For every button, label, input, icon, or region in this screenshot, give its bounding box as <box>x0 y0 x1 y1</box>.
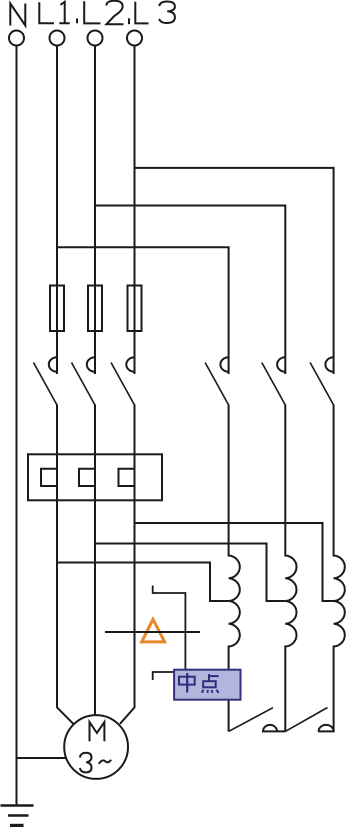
contactor KM pole 2 <box>262 357 286 405</box>
terminal N <box>9 31 24 46</box>
label L3 <box>129 2 175 25</box>
motor label 3~ <box>80 753 111 773</box>
wire N to motor <box>17 757 67 759</box>
callout leader <box>153 586 186 671</box>
contactor KM pole 1 <box>205 357 229 405</box>
breaker QF pole 2 <box>72 357 96 405</box>
wire N vertical <box>16 46 18 806</box>
wire L1 branch to contactor pole 1 <box>57 247 229 374</box>
FR heater element 1 <box>41 469 57 486</box>
breaker QF pole 1 <box>34 357 58 405</box>
net label box 中点 <box>174 670 240 700</box>
terminal L2 <box>88 31 103 46</box>
terminal L3 <box>127 31 142 46</box>
contactor KM pole 3 <box>310 357 334 405</box>
autotransformer winding T1 <box>229 405 240 732</box>
probe crosshair line <box>105 631 200 633</box>
fuse FU3 <box>128 286 142 332</box>
breaker QF pole 3 <box>111 357 135 405</box>
motor letter M <box>90 722 105 741</box>
star contact KM2 a <box>229 708 286 732</box>
motor M1 circle <box>64 715 128 779</box>
thermal overload relay FR box <box>28 454 162 500</box>
label L1 <box>39 2 70 23</box>
wire phase B to motor <box>94 405 96 716</box>
wire phase A to motor <box>57 405 73 724</box>
fuse FU1 <box>50 286 64 332</box>
ground <box>1 806 34 816</box>
wire L3 upper <box>134 46 136 375</box>
FR heater element 2 <box>79 469 95 486</box>
wire phase A branch to T1 tap <box>57 563 229 602</box>
wire L2 branch to contactor pole 2 <box>95 206 285 375</box>
wire phase C to motor <box>120 405 135 724</box>
delta marker triangle <box>142 619 165 642</box>
autotransformer winding T2 <box>285 405 296 732</box>
FR heater element 3 <box>119 469 135 486</box>
star contact KM2 b <box>285 708 334 732</box>
wire L2 upper <box>94 46 96 375</box>
fuse FU2 <box>88 286 102 332</box>
callout hook <box>153 672 175 680</box>
autotransformer winding T3 <box>334 405 345 732</box>
wire phase C branch to T3 tap <box>135 523 334 601</box>
label L2 <box>77 1 124 25</box>
terminal L1 <box>50 31 65 46</box>
net label glyph 点 <box>202 674 219 693</box>
wire L3 branch to contactor pole 3 <box>135 168 334 374</box>
net label glyph 中 <box>179 673 195 693</box>
wire L1 upper <box>56 46 58 375</box>
label N <box>10 4 25 26</box>
wire phase B branch to T2 tap <box>95 544 285 602</box>
